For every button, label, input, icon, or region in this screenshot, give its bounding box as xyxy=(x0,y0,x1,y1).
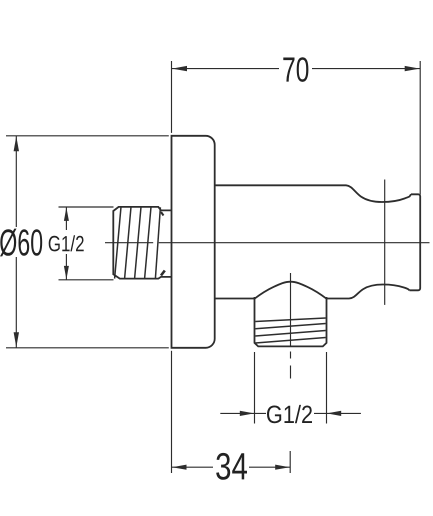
dimension G1/2 left: bottom extension line xyxy=(59,279,114,281)
dimension 34: text mask xyxy=(213,452,249,481)
dimension G1/2 bottom: right arrowhead pointing left xyxy=(327,411,341,416)
dimension 34: right arrowhead xyxy=(275,465,290,470)
body bottom outline with holder cove xyxy=(327,285,410,299)
dimension O60: bottom arrowhead xyxy=(14,332,19,347)
inlet thread hatch line 4 xyxy=(145,207,151,279)
dimension G1/2 bottom: text mask xyxy=(266,402,314,425)
dimension G1/2 bottom: dimension line inner xyxy=(255,412,327,414)
dimension G1/2 left: dimension line xyxy=(65,207,67,280)
dimension 70: left arrowhead xyxy=(172,66,187,71)
inlet thread hatch line 3 xyxy=(135,207,141,279)
end cap right edge xyxy=(410,194,421,290)
dimension 70: extension line left xyxy=(171,61,173,133)
dimension O60: top extension line (also flange top edge run) xyxy=(6,135,169,137)
outlet cylinder sides and bottom xyxy=(255,297,327,346)
dimension 34: left arrowhead xyxy=(172,465,187,470)
holder cup centerline (vertical) xyxy=(384,180,386,305)
dimension 34: right extension tick xyxy=(289,451,291,473)
inlet neck fillet shadow bottom xyxy=(161,271,165,276)
inlet thread right boundary xyxy=(155,207,160,278)
dimension G1/2 bottom: right extension line xyxy=(326,352,328,424)
dimension 70: right arrowhead xyxy=(405,66,420,71)
body bottom outline left of outlet xyxy=(215,298,255,300)
dimension G1/2 left: value label xyxy=(49,235,84,251)
outlet thread hatch line 3 xyxy=(255,331,325,337)
dimension G1/2 bottom: value label xyxy=(267,405,312,423)
dimension G1/2 bottom: right outside leader xyxy=(327,412,361,414)
dimension O60: top arrowhead xyxy=(14,136,19,151)
inlet neck fillet shadow top xyxy=(161,212,164,216)
dimension 34: dimension line xyxy=(172,466,291,468)
dimension 70: text mask xyxy=(279,55,312,82)
body top outline with holder cove xyxy=(215,185,411,202)
dimension O60: dimension line xyxy=(15,136,17,348)
outlet thread hatch line 1 xyxy=(255,318,325,322)
dimension G1/2 left: bottom arrowhead xyxy=(64,266,69,280)
dimension G1/2 bottom: left outside leader xyxy=(220,412,254,414)
outlet centerline (vertical, dashed) xyxy=(290,273,292,379)
dimension O60: text mask xyxy=(0,227,43,257)
dimension 34: value label xyxy=(216,453,247,480)
dimension 70: value label xyxy=(283,57,308,82)
dimension O60: bottom extension line xyxy=(6,347,169,349)
flange outline (wall plate, side view) xyxy=(172,136,215,348)
dimension G1/2 bottom: left extension line xyxy=(254,352,256,424)
flange left edge with extension runs to 70 and 34 dims xyxy=(171,351,173,473)
dimension G1/2 bottom: left arrowhead pointing right xyxy=(240,411,254,416)
dimension 70: extension line right xyxy=(419,61,421,195)
inlet nipple thread body outline xyxy=(113,207,171,279)
dimension G1/2 left: top arrowhead xyxy=(64,207,69,221)
outlet thread hatch line 2 xyxy=(255,324,325,329)
dimension G1/2 left: text mask xyxy=(47,230,86,254)
inlet thread hatch line 2 xyxy=(125,207,131,279)
dimension O60: value label xyxy=(0,229,42,257)
inlet thread hatch line 1 xyxy=(115,207,121,279)
dimension G1/2 left: top extension line xyxy=(59,206,114,208)
outlet dome xyxy=(255,282,327,299)
dimension 70: dimension line xyxy=(172,68,421,70)
main horizontal centerline xyxy=(105,242,430,244)
outlet thread hatch line 4 xyxy=(255,338,325,344)
